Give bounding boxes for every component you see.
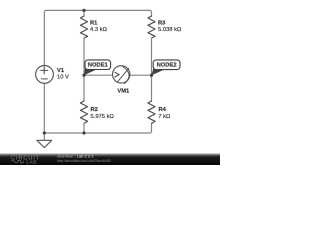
wire top rail with left and right drops: [44, 10, 151, 65]
voltmeter VM1: [113, 66, 130, 83]
svg-text:10 V: 10 V: [57, 74, 69, 80]
node NODE2 flag: [152, 60, 181, 75]
junction top rail / R1: [82, 9, 85, 12]
watermark bar: [0, 154, 220, 166]
resistor R3: [148, 16, 155, 38]
junction node NODE2: [150, 74, 153, 77]
svg-text:http://circuitlab.com/c6d23xxx: http://circuitlab.com/c6d23xxx6c65: [57, 159, 111, 163]
svg-text:NODE1: NODE1: [88, 63, 109, 69]
wire R2 bottom to bottom rail: [83, 124, 85, 134]
svg-text:LAB: LAB: [27, 159, 37, 164]
svg-text:4.3 kΩ: 4.3 kΩ: [90, 27, 108, 33]
svg-text:R3: R3: [158, 21, 166, 27]
junction bottom rail / ground: [43, 131, 46, 134]
svg-text:V1: V1: [57, 68, 65, 74]
svg-text:R4: R4: [159, 107, 167, 113]
wire voltmeter to node B: [130, 74, 152, 76]
wire node A to R2 top: [83, 75, 85, 101]
wire R3 bottom to node B to R4 top: [151, 38, 153, 101]
wire node A to voltmeter: [84, 74, 113, 76]
svg-text:R1: R1: [90, 21, 98, 27]
watermark text: [57, 153, 111, 162]
ground: [43, 133, 45, 140]
svg-text:R2: R2: [91, 107, 98, 113]
node NODE1 flag: [84, 60, 111, 75]
svg-text:NODE2: NODE2: [157, 63, 177, 69]
svg-text:7 kΩ: 7 kΩ: [158, 114, 171, 120]
resistor R1: [80, 16, 87, 38]
wire R1 bottom to node A: [83, 38, 85, 75]
wire V1 bottom to bottom rail and bottom rail to right branch: [44, 83, 151, 133]
labels: [57, 21, 182, 121]
svg-text:5.975 kΩ: 5.975 kΩ: [91, 114, 115, 120]
junction bottom rail / R2: [82, 131, 85, 134]
wire R1 top stub: [83, 10, 85, 16]
voltage source V1: [36, 66, 54, 84]
svg-text:shanthan : Lab 2 2.1: shanthan : Lab 2 2.1: [57, 153, 94, 158]
svg-text:5.038 kΩ: 5.038 kΩ: [158, 27, 182, 33]
junction node NODE1: [82, 74, 85, 77]
resistor R2: [80, 101, 87, 124]
watermark logo CIRCUIT LAB: [11, 156, 40, 165]
resistor R4: [148, 101, 155, 124]
svg-text:VM1: VM1: [117, 88, 130, 94]
